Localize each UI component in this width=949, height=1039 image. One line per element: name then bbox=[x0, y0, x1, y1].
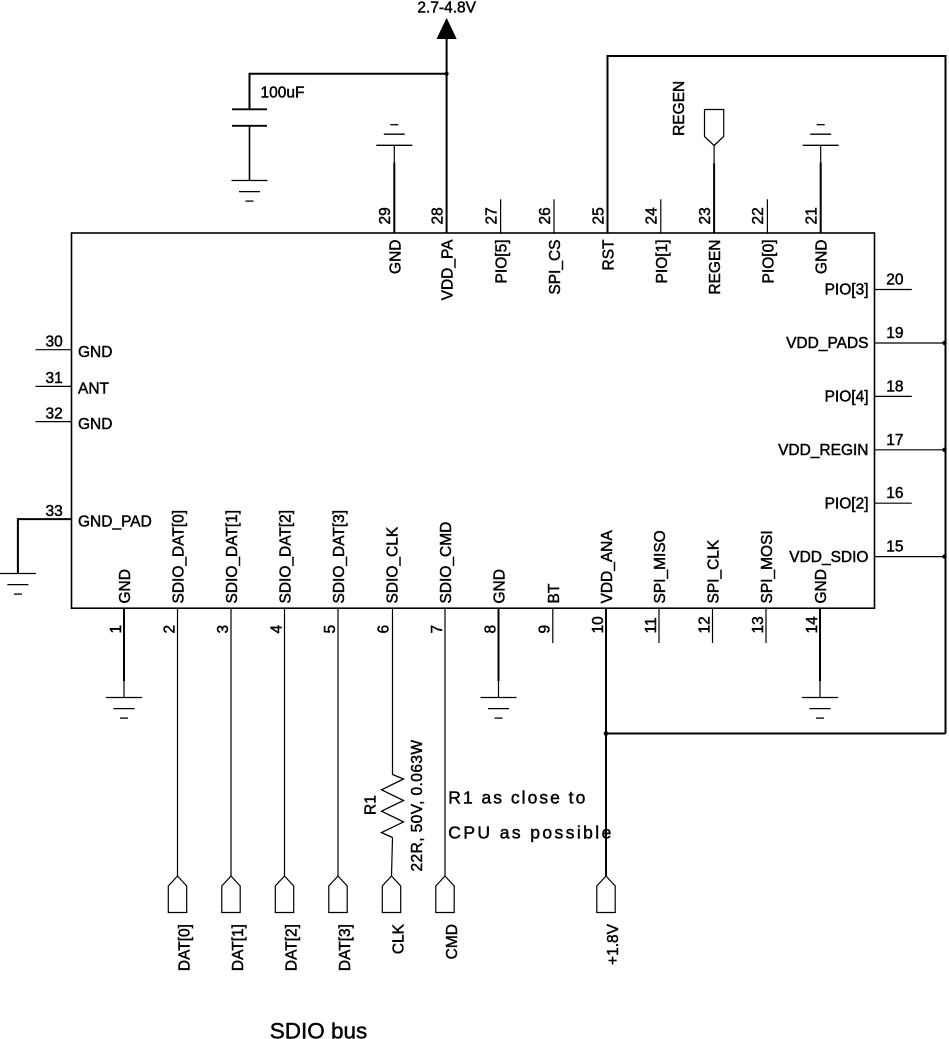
pin 33 wire to ground bbox=[18, 518, 72, 520]
svg-text:30: 30 bbox=[46, 334, 64, 351]
svg-text:27: 27 bbox=[483, 207, 500, 224]
svg-text:GND: GND bbox=[387, 240, 404, 274]
pin 23 wire to REGEN connector bbox=[713, 163, 715, 233]
svg-text:100uF: 100uF bbox=[261, 85, 305, 102]
wire power rail horizontal bbox=[250, 73, 447, 75]
svg-text:SPI_MOSI: SPI_MOSI bbox=[759, 530, 776, 603]
connector DAT[1] bbox=[222, 876, 240, 913]
svg-text:25: 25 bbox=[590, 207, 607, 224]
svg-text:9: 9 bbox=[537, 625, 554, 634]
svg-text:6: 6 bbox=[375, 625, 392, 634]
svg-text:23: 23 bbox=[697, 207, 714, 224]
ground below pin 14 bbox=[802, 698, 838, 719]
pin 17 wire to right bus bbox=[875, 449, 946, 451]
wire capacitor to ground bbox=[249, 126, 251, 181]
svg-text:33: 33 bbox=[46, 503, 63, 520]
node pin 17 junction bbox=[942, 448, 946, 452]
svg-text:21: 21 bbox=[804, 207, 821, 224]
svg-text:3: 3 bbox=[215, 625, 232, 634]
ground above pin 29 (inverted) bbox=[376, 125, 412, 146]
pin 10 wire VDD_ANA to +1.8V bbox=[605, 608, 607, 876]
connector CMD bbox=[436, 876, 454, 913]
wire top bus horizontal bbox=[607, 55, 946, 57]
connector CLK bbox=[382, 876, 400, 913]
pin 16 stub wire bbox=[875, 502, 912, 504]
svg-text:SDIO_CMD: SDIO_CMD bbox=[438, 522, 455, 604]
connector +1.8V bbox=[597, 876, 615, 913]
svg-text:31: 31 bbox=[46, 370, 63, 387]
pin 19 wire to right bus bbox=[875, 342, 946, 344]
pin 21 wire to ground bbox=[820, 163, 822, 234]
svg-text:17: 17 bbox=[886, 432, 903, 449]
svg-text:VDD_ANA: VDD_ANA bbox=[599, 530, 616, 604]
svg-text:16: 16 bbox=[886, 485, 903, 502]
svg-text:PIO[0]: PIO[0] bbox=[760, 240, 777, 284]
svg-text:10: 10 bbox=[590, 616, 607, 634]
pin 9 stub wire bbox=[552, 608, 554, 643]
pin 25 wire to top bus bbox=[607, 56, 609, 233]
pin 14 wire to ground bbox=[819, 608, 821, 681]
node VDD junction bbox=[445, 72, 449, 76]
ground below pin 8 bbox=[481, 698, 517, 719]
svg-text:GND_PAD: GND_PAD bbox=[78, 513, 152, 530]
svg-text:PIO[1]: PIO[1] bbox=[654, 240, 671, 284]
svg-text:2.7-4.8V: 2.7-4.8V bbox=[417, 0, 476, 17]
svg-text:12: 12 bbox=[696, 616, 713, 633]
svg-text:ANT: ANT bbox=[78, 381, 110, 398]
svg-text:SPI_CLK: SPI_CLK bbox=[706, 539, 723, 603]
pin 1 wire to ground bbox=[123, 608, 125, 681]
connector DAT[2] bbox=[275, 876, 293, 913]
pin 12 stub wire bbox=[712, 608, 714, 643]
wire right bus vertical bbox=[945, 55, 947, 734]
svg-text:SPI_CS: SPI_CS bbox=[547, 240, 564, 295]
svg-text:32: 32 bbox=[46, 405, 63, 422]
svg-text:BT: BT bbox=[546, 583, 563, 603]
pin 5 wire to connector bbox=[337, 608, 339, 876]
svg-text:DAT[2]: DAT[2] bbox=[284, 924, 301, 971]
svg-text:REGEN: REGEN bbox=[671, 81, 688, 136]
pin 31 stub wire bbox=[36, 385, 72, 387]
wire arrow to junction bbox=[446, 38, 448, 74]
svg-text:PIO[5]: PIO[5] bbox=[494, 240, 511, 284]
pin 8 wire to ground bbox=[498, 608, 500, 681]
svg-text:R1 as close to: R1 as close to bbox=[448, 788, 585, 808]
svg-text:DAT[0]: DAT[0] bbox=[177, 924, 194, 971]
pin 32 stub wire bbox=[36, 421, 72, 423]
svg-text:SDIO_DAT[2]: SDIO_DAT[2] bbox=[278, 510, 295, 604]
capacitor C1 100uF lead top bbox=[249, 73, 251, 110]
svg-text:11: 11 bbox=[643, 617, 660, 633]
pin 6 wire upper segment bbox=[392, 608, 394, 774]
svg-text:RST: RST bbox=[601, 239, 618, 271]
svg-text:22R, 50V, 0.063W: 22R, 50V, 0.063W bbox=[409, 740, 426, 872]
node pin10 junction bbox=[604, 731, 609, 736]
pin 3 wire to connector bbox=[230, 608, 232, 876]
svg-text:SDIO_CLK: SDIO_CLK bbox=[385, 526, 402, 603]
resistor R1 bbox=[382, 775, 404, 838]
pin 15 wire to right bus bbox=[875, 556, 946, 558]
svg-text:VDD_REGIN: VDD_REGIN bbox=[778, 442, 868, 459]
power arrow 2.7-4.8V bbox=[437, 19, 456, 39]
svg-text:GND: GND bbox=[814, 240, 831, 274]
svg-text:GND: GND bbox=[78, 416, 112, 433]
pin 13 stub wire bbox=[765, 608, 767, 643]
svg-text:2: 2 bbox=[161, 625, 178, 634]
svg-text:GND: GND bbox=[492, 569, 509, 603]
svg-text:DAT[3]: DAT[3] bbox=[337, 924, 354, 971]
svg-text:15: 15 bbox=[886, 539, 903, 556]
svg-text:19: 19 bbox=[886, 325, 903, 342]
pin 2 wire to connector bbox=[177, 608, 179, 876]
svg-text:28: 28 bbox=[429, 207, 446, 224]
pin 22 stub wire bbox=[766, 199, 768, 233]
svg-text:13: 13 bbox=[750, 616, 767, 633]
svg-text:5: 5 bbox=[322, 625, 339, 634]
svg-text:VDD_PADS: VDD_PADS bbox=[786, 335, 868, 352]
svg-text:SDIO_DAT[3]: SDIO_DAT[3] bbox=[331, 510, 348, 604]
svg-text:24: 24 bbox=[644, 207, 661, 225]
svg-text:1: 1 bbox=[108, 625, 125, 634]
ground below C1 bbox=[232, 181, 268, 202]
svg-text:CLK: CLK bbox=[391, 923, 408, 954]
svg-text:VDD_SDIO: VDD_SDIO bbox=[789, 549, 868, 566]
svg-text:4: 4 bbox=[268, 625, 285, 634]
svg-text:GND: GND bbox=[813, 569, 830, 603]
pin 7 wire to connector bbox=[444, 608, 446, 876]
ground below pin 1 bbox=[106, 698, 142, 719]
svg-text:+1.8V: +1.8V bbox=[605, 923, 622, 965]
capacitor C1 plates bbox=[232, 109, 267, 126]
pin 4 wire to connector bbox=[284, 608, 286, 876]
svg-text:SDIO bus: SDIO bus bbox=[270, 1018, 368, 1039]
svg-text:18: 18 bbox=[886, 378, 903, 395]
svg-text:GND: GND bbox=[117, 569, 134, 603]
svg-text:PIO[4]: PIO[4] bbox=[825, 389, 869, 406]
pin 11 stub wire bbox=[658, 608, 660, 643]
node pin 15 junction bbox=[942, 554, 946, 558]
svg-text:REGEN: REGEN bbox=[707, 240, 724, 295]
node pin 19 junction bbox=[942, 341, 946, 345]
svg-text:VDD_PA: VDD_PA bbox=[440, 239, 457, 301]
svg-text:SDIO_DAT[0]: SDIO_DAT[0] bbox=[171, 510, 188, 604]
svg-text:20: 20 bbox=[886, 272, 904, 289]
svg-text:CPU as possible: CPU as possible bbox=[448, 823, 611, 843]
IC U1 body bbox=[72, 233, 875, 608]
pin 20 stub wire bbox=[875, 289, 912, 291]
pin 24 stub wire bbox=[660, 199, 662, 233]
wire pin10 junction to right bus bbox=[606, 733, 946, 735]
svg-text:29: 29 bbox=[377, 207, 394, 224]
pin 29 wire to ground bbox=[393, 163, 395, 234]
connector DAT[0] bbox=[168, 876, 186, 913]
pin 30 stub wire bbox=[36, 349, 72, 351]
pin 27 stub wire bbox=[500, 199, 502, 233]
ground below pin 33 bbox=[0, 574, 36, 595]
svg-text:8: 8 bbox=[482, 625, 499, 634]
connector DAT[3] bbox=[329, 876, 347, 913]
svg-text:SDIO_DAT[1]: SDIO_DAT[1] bbox=[224, 510, 241, 604]
svg-text:DAT[1]: DAT[1] bbox=[230, 924, 247, 971]
svg-text:GND: GND bbox=[78, 344, 112, 361]
pin 6 wire lower segment bbox=[392, 838, 393, 877]
svg-text:22: 22 bbox=[750, 207, 767, 224]
svg-text:CMD: CMD bbox=[444, 924, 461, 959]
svg-text:14: 14 bbox=[804, 616, 821, 634]
svg-text:R1: R1 bbox=[363, 795, 380, 815]
svg-text:26: 26 bbox=[537, 207, 554, 224]
pin 18 stub wire bbox=[875, 395, 912, 397]
svg-text:SPI_MISO: SPI_MISO bbox=[652, 530, 669, 603]
svg-text:PIO[3]: PIO[3] bbox=[825, 282, 869, 299]
connector REGEN bbox=[705, 110, 724, 146]
pin 26 stub wire bbox=[553, 199, 555, 233]
ground above pin 21 (inverted) bbox=[803, 125, 839, 146]
pin 28 wire to VDD rail bbox=[446, 74, 448, 233]
svg-text:7: 7 bbox=[429, 625, 446, 634]
svg-text:PIO[2]: PIO[2] bbox=[825, 495, 869, 512]
